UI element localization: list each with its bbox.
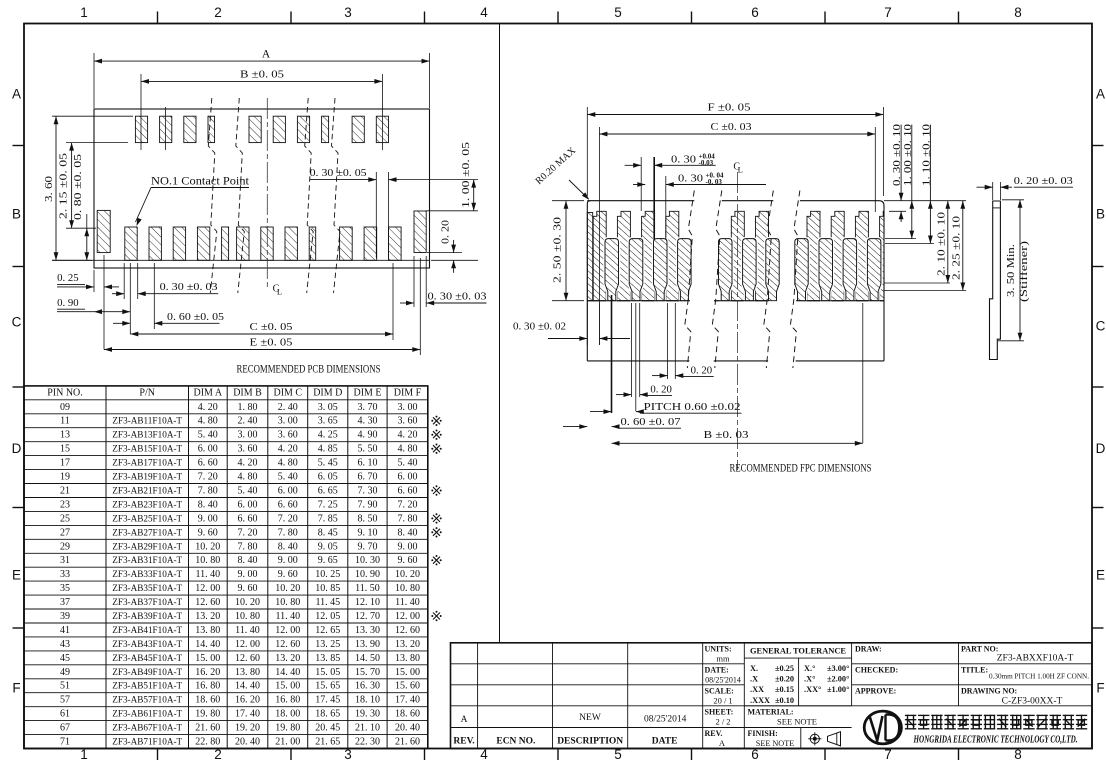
svg-text:C ±0. 05: C ±0. 05 [250, 321, 294, 333]
part no cell [959, 663, 1093, 665]
svg-text:FINISH:: FINISH: [748, 729, 778, 738]
svg-text:ZF3-AB71F10A-T: ZF3-AB71F10A-T [112, 737, 182, 747]
svg-text:7. 90: 7. 90 [358, 499, 378, 510]
dim 1.00 +-0.05 right [399, 179, 478, 181]
reference mark for row 27 [433, 529, 440, 536]
company logo ellipse VD [864, 711, 901, 744]
svg-text:9. 65: 9. 65 [318, 555, 338, 566]
svg-text:B ±0. 03: B ±0. 03 [704, 429, 750, 441]
svg-text:43: 43 [60, 639, 70, 650]
svg-text:17. 45: 17. 45 [315, 695, 340, 706]
svg-text:19: 19 [60, 472, 70, 483]
svg-text:E: E [1096, 568, 1105, 583]
svg-text:DRAWING NO:: DRAWING NO: [961, 687, 1017, 696]
svg-text:12. 70: 12. 70 [355, 611, 380, 622]
svg-text:0. 20: 0. 20 [439, 219, 451, 244]
PCB top pad row [135, 116, 147, 142]
svg-text:10. 20: 10. 20 [395, 569, 420, 580]
dim 0.30 tol lower bulb width [665, 176, 667, 240]
svg-text:8. 40: 8. 40 [238, 555, 258, 566]
svg-text:10. 80: 10. 80 [235, 611, 260, 622]
svg-text:13. 90: 13. 90 [355, 639, 380, 650]
svg-text:RECOMMENDED PCB DIMENSIONS: RECOMMENDED PCB DIMENSIONS [237, 364, 381, 376]
reference mark for row 39 [433, 613, 440, 620]
svg-text:21. 00: 21. 00 [275, 737, 300, 748]
svg-text:ZF3-AB21F10A-T: ZF3-AB21F10A-T [112, 486, 182, 496]
FPC tail bottom edge segments [587, 360, 689, 362]
svg-text:4. 20: 4. 20 [278, 444, 298, 455]
svg-text:20. 40: 20. 40 [235, 737, 260, 748]
svg-text:CHECKED:: CHECKED: [855, 666, 898, 675]
svg-text:21. 10: 21. 10 [355, 723, 380, 734]
svg-text:8. 50: 8. 50 [358, 513, 378, 524]
svg-text:10. 80: 10. 80 [275, 597, 300, 608]
svg-text:6. 00: 6. 00 [398, 472, 418, 483]
dim 0.30 +-0.03 right anchor pad [413, 256, 415, 307]
svg-text:0. 30: 0. 30 [678, 173, 704, 185]
svg-text:C: C [1096, 319, 1106, 334]
svg-text:0. 20: 0. 20 [691, 364, 713, 376]
svg-text:8. 40: 8. 40 [398, 527, 418, 538]
general tolerance box [744, 657, 851, 659]
svg-text:P/N: P/N [139, 388, 155, 399]
svg-text:11. 45: 11. 45 [315, 597, 340, 608]
svg-text:D: D [1096, 441, 1106, 456]
svg-text:0. 30 ±0. 02: 0. 30 ±0. 02 [513, 320, 566, 332]
svg-text:15. 00: 15. 00 [275, 681, 300, 692]
svg-text:7. 20: 7. 20 [398, 499, 418, 510]
reference mark for row 13 [433, 431, 440, 438]
FPC body left edge [587, 201, 590, 361]
svg-text:9. 60: 9. 60 [198, 527, 218, 538]
svg-text:±1.00°: ±1.00° [827, 685, 849, 694]
svg-text:.XX: .XX [750, 685, 764, 694]
svg-text:PITCH 0.60 ±0.02: PITCH 0.60 ±0.02 [644, 401, 741, 413]
svg-text:E: E [12, 568, 21, 583]
svg-text:±0.10: ±0.10 [775, 696, 794, 705]
svg-text:0. 20: 0. 20 [650, 383, 672, 395]
svg-text:0. 30 ±0. 03: 0. 30 ±0. 03 [160, 281, 219, 293]
svg-text:B: B [12, 207, 21, 222]
svg-text:3. 60: 3. 60 [43, 175, 55, 202]
svg-text:L: L [277, 287, 282, 297]
dim 0.30 +-0.03 bottom pad width [123, 263, 125, 299]
reference mark for row 11 [433, 417, 440, 424]
svg-text:13. 80: 13. 80 [395, 653, 420, 664]
dim F +-0.05 [586, 107, 588, 196]
svg-text:39: 39 [60, 611, 70, 622]
svg-text:E ±0. 05: E ±0. 05 [250, 337, 294, 349]
svg-text:0. 20 ±0. 03: 0. 20 ±0. 03 [1014, 175, 1074, 187]
svg-text:SEE NOTE: SEE NOTE [756, 739, 794, 748]
svg-text:ZF3-AB29F10A-T: ZF3-AB29F10A-T [112, 541, 182, 551]
svg-text:.XXX: .XXX [750, 696, 770, 705]
svg-text:ZF3-AB17F10A-T: ZF3-AB17F10A-T [112, 458, 182, 468]
svg-text:5: 5 [614, 5, 622, 20]
svg-text:0. 30: 0. 30 [671, 153, 697, 165]
svg-text:ZF3-AB25F10A-T: ZF3-AB25F10A-T [112, 513, 182, 523]
svg-text:ZF3-AB61F10A-T: ZF3-AB61F10A-T [112, 709, 182, 719]
svg-text:MATERIAL:: MATERIAL: [748, 708, 794, 717]
svg-text:B: B [1096, 207, 1105, 222]
svg-text:ZF3-AB13F10A-T: ZF3-AB13F10A-T [112, 430, 182, 440]
svg-text:GENERAL TOLERANCE: GENERAL TOLERANCE [750, 647, 846, 656]
svg-text:19. 80: 19. 80 [195, 709, 220, 720]
svg-text:-0.03: -0.03 [699, 159, 714, 167]
svg-text:16. 20: 16. 20 [235, 695, 260, 706]
svg-text:10. 20: 10. 20 [195, 541, 220, 552]
sheet center divider line [499, 24, 501, 643]
svg-text:6. 05: 6. 05 [318, 472, 338, 483]
draw-checked-approve column [852, 663, 959, 665]
svg-text:X.°: X.° [804, 664, 815, 673]
material cell [744, 705, 851, 707]
svg-text:A: A [1096, 87, 1105, 102]
svg-text:9. 05: 9. 05 [318, 541, 338, 552]
svg-text:6: 6 [751, 5, 759, 20]
extension line through top pad 2 [165, 107, 167, 150]
svg-text:ZF3-AB33F10A-T: ZF3-AB33F10A-T [112, 569, 182, 579]
svg-text:29: 29 [60, 541, 70, 552]
svg-text:10. 20: 10. 20 [235, 597, 260, 608]
svg-text:15: 15 [60, 444, 70, 455]
PCB right anchor pad [414, 211, 426, 253]
svg-text:21. 60: 21. 60 [195, 723, 220, 734]
svg-text:SEE NOTE: SEE NOTE [777, 717, 817, 727]
svg-text:4. 80: 4. 80 [278, 458, 298, 469]
svg-text:F: F [1096, 681, 1104, 696]
svg-text:7. 30: 7. 30 [358, 486, 378, 497]
svg-text:±0.20: ±0.20 [775, 675, 794, 684]
svg-text:6. 65: 6. 65 [318, 486, 338, 497]
svg-text:37: 37 [60, 597, 70, 608]
below-body extension lines FPC [611, 295, 613, 413]
svg-text:9. 60: 9. 60 [398, 555, 418, 566]
svg-text:6. 70: 6. 70 [358, 472, 378, 483]
svg-text:F: F [12, 681, 20, 696]
svg-text:A: A [719, 738, 726, 748]
svg-text:DRAW:: DRAW: [855, 645, 882, 654]
svg-text:NEW: NEW [579, 713, 601, 723]
title block outer [451, 643, 1093, 749]
PCB centerline [266, 98, 268, 290]
dim 0.20 right [427, 252, 462, 254]
svg-text:6. 00: 6. 00 [198, 444, 218, 455]
PCB pads bottom baseline [52, 259, 430, 261]
svg-text:7. 25: 7. 25 [318, 499, 338, 510]
svg-text:ZF3-AB43F10A-T: ZF3-AB43F10A-T [112, 639, 182, 649]
svg-text:12. 00: 12. 00 [275, 625, 300, 636]
svg-text:23: 23 [60, 499, 70, 510]
svg-text:6. 60: 6. 60 [238, 513, 258, 524]
svg-text:SCALE:: SCALE: [705, 687, 734, 696]
svg-text:11. 40: 11. 40 [395, 597, 420, 608]
reference mark for row 21 [433, 487, 440, 494]
svg-text:1: 1 [80, 5, 88, 20]
svg-text:5. 40: 5. 40 [278, 472, 298, 483]
svg-text:19. 30: 19. 30 [355, 709, 380, 720]
svg-text:57: 57 [60, 695, 70, 706]
svg-text:-0. 03: -0. 03 [706, 178, 723, 186]
svg-text:DIM A: DIM A [193, 388, 222, 399]
PCB bottom pad row [125, 227, 137, 260]
svg-text:8. 40: 8. 40 [278, 541, 298, 552]
svg-text:16. 30: 16. 30 [355, 681, 380, 692]
svg-text:3. 60: 3. 60 [398, 416, 418, 427]
svg-text:ZF3-AB57F10A-T: ZF3-AB57F10A-T [112, 695, 182, 705]
svg-text:7. 85: 7. 85 [318, 513, 338, 524]
svg-text:DIM E: DIM E [353, 388, 381, 399]
svg-text:16. 20: 16. 20 [195, 667, 220, 678]
svg-text:ZF3-AB11F10A-T: ZF3-AB11F10A-T [112, 416, 182, 426]
svg-text:15. 70: 15. 70 [355, 667, 380, 678]
svg-text:20. 40: 20. 40 [395, 723, 420, 734]
svg-text:10. 90: 10. 90 [355, 569, 380, 580]
svg-text:17: 17 [60, 458, 70, 469]
FPC fingers baseline redraw over fingers [587, 300, 690, 302]
svg-text:C-ZF3-00XX-T: C-ZF3-00XX-T [1002, 696, 1063, 706]
svg-text:8: 8 [1014, 5, 1022, 20]
svg-text:1. 00 ±0. 05: 1. 00 ±0. 05 [460, 141, 472, 208]
svg-text:9. 00: 9. 00 [278, 555, 298, 566]
svg-text:21. 65: 21. 65 [315, 737, 340, 748]
projection symbol target [810, 734, 819, 743]
svg-text:9. 10: 9. 10 [358, 527, 378, 538]
dim 0.80 +-0.05 left [86, 228, 88, 260]
svg-text:7. 80: 7. 80 [278, 527, 298, 538]
svg-text:16. 80: 16. 80 [195, 681, 220, 692]
svg-text:±3.00°: ±3.00° [827, 664, 849, 673]
svg-text:4. 25: 4. 25 [318, 430, 338, 441]
FPC last upper finger clipped at right edge [880, 211, 884, 300]
svg-text:4. 80: 4. 80 [398, 444, 418, 455]
svg-text:7. 80: 7. 80 [238, 541, 258, 552]
title block center column cells [703, 663, 745, 665]
svg-text:61: 61 [60, 709, 70, 720]
FPC left sliver finger [587, 213, 592, 301]
finish cell [744, 727, 851, 729]
svg-text:11. 50: 11. 50 [355, 583, 380, 594]
svg-text:±2.00°: ±2.00° [827, 675, 849, 684]
svg-text:31: 31 [60, 555, 70, 566]
svg-text:0. 25: 0. 25 [57, 272, 79, 284]
svg-text:3. 60: 3. 60 [278, 430, 298, 441]
svg-text:13. 85: 13. 85 [315, 653, 340, 664]
svg-text:14. 40: 14. 40 [195, 639, 220, 650]
svg-text:9. 00: 9. 00 [198, 513, 218, 524]
svg-text:mm: mm [716, 654, 730, 664]
svg-text:DESCRIPTION: DESCRIPTION [557, 737, 623, 747]
svg-text:5. 40: 5. 40 [238, 486, 258, 497]
svg-text:ZF3-AB39F10A-T: ZF3-AB39F10A-T [112, 611, 182, 621]
svg-text:13. 20: 13. 20 [275, 653, 300, 664]
svg-text:10. 30: 10. 30 [355, 555, 380, 566]
svg-text:2. 50 ±0. 30: 2. 50 ±0. 30 [551, 216, 563, 283]
svg-text:4. 80: 4. 80 [198, 416, 218, 427]
svg-text:ECN NO.: ECN NO. [496, 737, 535, 747]
svg-text:12. 60: 12. 60 [395, 625, 420, 636]
svg-text:ZF3-AB51F10A-T: ZF3-AB51F10A-T [112, 681, 182, 691]
svg-text:ZF3-AB15F10A-T: ZF3-AB15F10A-T [112, 444, 182, 454]
svg-text:6. 00: 6. 00 [278, 486, 298, 497]
svg-text:SHEET:: SHEET: [705, 708, 734, 717]
svg-text:11. 40: 11. 40 [275, 611, 300, 622]
svg-text:18. 60: 18. 60 [395, 709, 420, 720]
dim B +-0.05 [140, 74, 142, 150]
svg-text:0. 60 ±0. 07: 0. 60 ±0. 07 [621, 416, 682, 428]
svg-text:B ±0. 05: B ±0. 05 [240, 69, 285, 81]
reference mark for row 31 [433, 557, 440, 564]
svg-text:51: 51 [60, 681, 70, 692]
svg-text:DIM F: DIM F [394, 388, 422, 399]
FPC fingers baseline segments [587, 300, 690, 302]
svg-text:ZF3-AB45F10A-T: ZF3-AB45F10A-T [112, 653, 182, 663]
svg-text:7. 80: 7. 80 [398, 513, 418, 524]
svg-text:2: 2 [214, 5, 222, 20]
svg-text:17. 40: 17. 40 [235, 709, 260, 720]
svg-text:2. 40: 2. 40 [238, 416, 258, 427]
dim 2.10 +-0.10 right [884, 282, 950, 284]
svg-text:4. 20: 4. 20 [198, 402, 218, 413]
right side vertical dims 0.30 1.00 1.10 [884, 200, 966, 202]
svg-text:L: L [738, 165, 743, 175]
svg-text:DATE: DATE [652, 737, 678, 747]
svg-text:13. 80: 13. 80 [195, 625, 220, 636]
svg-text:3. 00: 3. 00 [278, 416, 298, 427]
svg-text:09: 09 [60, 402, 70, 413]
svg-text:08/25'2014: 08/25'2014 [644, 714, 687, 724]
svg-text:RECOMMENDED FPC DIMENSIONS: RECOMMENDED FPC DIMENSIONS [730, 463, 872, 475]
svg-text:F ±0. 05: F ±0. 05 [708, 102, 752, 114]
svg-text:4. 30: 4. 30 [358, 416, 378, 427]
svg-text:ZF3-AB41F10A-T: ZF3-AB41F10A-T [112, 625, 182, 635]
svg-text:.X: .X [750, 675, 758, 684]
svg-text:17. 40: 17. 40 [395, 695, 420, 706]
svg-text:41: 41 [60, 625, 70, 636]
svg-text:5. 40: 5. 40 [398, 458, 418, 469]
svg-text:ZF3-AB37F10A-T: ZF3-AB37F10A-T [112, 597, 182, 607]
svg-text:2. 15 ±0. 05: 2. 15 ±0. 05 [57, 152, 69, 219]
svg-text:DATE:: DATE: [705, 666, 729, 675]
svg-text:12. 60: 12. 60 [235, 653, 260, 664]
svg-text:13. 20: 13. 20 [395, 639, 420, 650]
stiffener profile [990, 201, 1001, 360]
svg-text:0. 30 ±0. 03: 0. 30 ±0. 03 [428, 290, 488, 302]
parts table grid [24, 386, 428, 749]
svg-text:3. 05: 3. 05 [318, 402, 338, 413]
svg-text:ZF3-AB27F10A-T: ZF3-AB27F10A-T [112, 527, 182, 537]
svg-text:4. 90: 4. 90 [358, 430, 378, 441]
svg-text:C: C [12, 315, 22, 330]
svg-text:13. 20: 13. 20 [195, 611, 220, 622]
svg-text:PIN NO.: PIN NO. [47, 388, 83, 399]
svg-text:21: 21 [60, 486, 70, 497]
svg-text:12. 00: 12. 00 [395, 611, 420, 622]
FPC lower bulb fingers hatched [605, 239, 619, 301]
svg-text:45: 45 [60, 653, 70, 664]
svg-text:2. 25 ±0. 10: 2. 25 ±0. 10 [951, 216, 962, 280]
svg-text:4. 85: 4. 85 [318, 444, 338, 455]
dim 0.30 tol upper finger width [640, 157, 642, 211]
svg-text:5. 45: 5. 45 [318, 458, 338, 469]
svg-text:12. 00: 12. 00 [235, 639, 260, 650]
svg-text:2. 10 ±0. 10: 2. 10 ±0. 10 [936, 212, 947, 276]
svg-text:6. 00: 6. 00 [238, 499, 258, 510]
FPC break lines (dashed) [685, 191, 695, 369]
svg-text:4. 20: 4. 20 [238, 458, 258, 469]
svg-text:3. 65: 3. 65 [318, 416, 338, 427]
PCB break lines (dashed) [208, 98, 217, 293]
zone tick marks [157, 12, 159, 24]
svg-text:08/25'2014: 08/25'2014 [705, 675, 741, 684]
svg-text:0. 30 ±0. 05: 0. 30 ±0. 05 [310, 167, 368, 179]
svg-text:ZF3-AB19F10A-T: ZF3-AB19F10A-T [112, 472, 182, 482]
svg-text:0. 90: 0. 90 [57, 297, 79, 309]
svg-text:35: 35 [60, 583, 70, 594]
svg-text:12. 65: 12. 65 [315, 625, 340, 636]
svg-text:19. 80: 19. 80 [275, 723, 300, 734]
svg-text:10. 25: 10. 25 [315, 569, 340, 580]
svg-text:REV.: REV. [453, 737, 474, 747]
svg-text:9. 60: 9. 60 [238, 583, 258, 594]
svg-text:8. 45: 8. 45 [318, 527, 338, 538]
svg-text:33: 33 [60, 569, 70, 580]
svg-text:22. 80: 22. 80 [195, 737, 220, 748]
svg-text:7. 20: 7. 20 [238, 527, 258, 538]
svg-text:4. 20: 4. 20 [398, 430, 418, 441]
company name Chinese glyph approximation [905, 715, 916, 729]
svg-text:1. 80: 1. 80 [238, 402, 258, 413]
svg-text:13. 30: 13. 30 [355, 625, 380, 636]
FPC body top edge segments [587, 200, 694, 202]
svg-text:6. 10: 6. 10 [358, 458, 378, 469]
svg-text:A: A [12, 87, 21, 102]
svg-text:21. 60: 21. 60 [395, 737, 420, 748]
svg-text:13. 80: 13. 80 [235, 667, 260, 678]
dim 0.60 +-0.05 pitch [153, 263, 155, 329]
svg-text:DIM B: DIM B [233, 388, 262, 399]
svg-text:ZF3-AB23F10A-T: ZF3-AB23F10A-T [112, 499, 182, 509]
dim 2.50 +-0.30 left [552, 200, 584, 202]
svg-text:18. 10: 18. 10 [355, 695, 380, 706]
svg-text:0. 80 ±0. 05: 0. 80 ±0. 05 [72, 153, 84, 220]
svg-text:4: 4 [480, 5, 488, 20]
svg-text:0.30mm PITCH 1.00H ZF CONN.: 0.30mm PITCH 1.00H ZF CONN. [989, 673, 1089, 681]
svg-text:19. 20: 19. 20 [235, 723, 260, 734]
svg-text:5. 40: 5. 40 [198, 430, 218, 441]
dim 0.30 +-0.05 top pads [375, 172, 377, 258]
svg-text:7. 80: 7. 80 [198, 486, 218, 497]
PCB connector body outline [94, 109, 430, 268]
svg-text:3. 00: 3. 00 [238, 430, 258, 441]
svg-text:22. 30: 22. 30 [355, 737, 380, 748]
svg-text:13. 25: 13. 25 [315, 639, 340, 650]
svg-text:9. 00: 9. 00 [398, 541, 418, 552]
reference mark for row 15 [433, 445, 440, 452]
svg-text:ZF3-AB35F10A-T: ZF3-AB35F10A-T [112, 583, 182, 593]
svg-text:15. 65: 15. 65 [315, 681, 340, 692]
svg-text:12. 00: 12. 00 [195, 583, 220, 594]
svg-text:10. 80: 10. 80 [395, 583, 420, 594]
svg-text:7. 20: 7. 20 [278, 513, 298, 524]
svg-text:27: 27 [60, 527, 70, 538]
svg-text:12. 10: 12. 10 [355, 597, 380, 608]
svg-text:4. 80: 4. 80 [238, 472, 258, 483]
svg-text:REV.: REV. [705, 729, 723, 738]
dim C +-0.03 [598, 127, 600, 345]
svg-text:71: 71 [60, 737, 70, 748]
svg-text:3. 50 Min.: 3. 50 Min. [1006, 244, 1017, 297]
